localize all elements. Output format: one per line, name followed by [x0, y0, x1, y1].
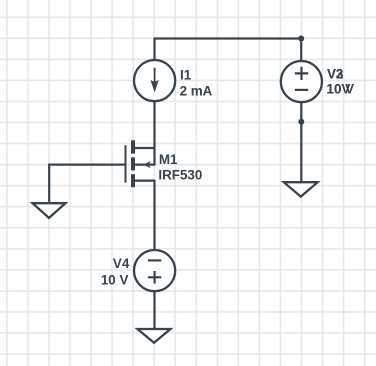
- wire: top net from I1 up and across to V2/V3: [155, 39, 302, 61]
- current source I1 circle: [134, 60, 175, 101]
- voltage source V2/V3 circle: [281, 61, 322, 102]
- svg-text:10V: 10V: [327, 82, 351, 97]
- wire: V2 top lead: [300, 39, 302, 62]
- M1 source stub: [135, 180, 155, 182]
- ground (right): [284, 182, 318, 196]
- V2 plus sign: [295, 67, 308, 80]
- M1 drain stub: [135, 147, 155, 149]
- svg-text:10 V: 10 V: [101, 272, 129, 287]
- wire: V2 bottom lead: [300, 102, 302, 122]
- I1 arrow shaft: [154, 68, 156, 83]
- svg-text:V3: V3: [327, 66, 343, 81]
- wire: MOSFET source down to V4: [153, 180, 155, 251]
- M1 channel bar middle: [131, 157, 135, 170]
- M1 body stub: [135, 164, 155, 166]
- M1 channel bar top: [131, 140, 135, 153]
- ground (left): [33, 203, 66, 218]
- wire: gate to left ground: [49, 165, 124, 202]
- M1 body arrow: [143, 161, 150, 168]
- V2 minus sign: [295, 89, 308, 91]
- V4 plus sign: [148, 271, 161, 284]
- wire: V4 to bottom ground: [153, 291, 155, 329]
- svg-text:2 mA: 2 mA: [180, 83, 213, 98]
- svg-text:IRF530: IRF530: [158, 167, 202, 182]
- svg-text:V4: V4: [113, 256, 130, 271]
- M1 channel bar bottom: [131, 174, 135, 187]
- junction node: top right corner: [298, 36, 304, 42]
- I1 arrow head: [150, 80, 158, 93]
- svg-text:M1: M1: [159, 152, 178, 167]
- V4 minus sign: [148, 259, 161, 261]
- wire: down to right ground: [300, 122, 302, 182]
- wire: I1 to MOSFET drain column: [153, 101, 155, 166]
- transistor M1 gate bar: [125, 145, 127, 182]
- junction node: below V2: [298, 119, 304, 125]
- svg-text:I1: I1: [180, 67, 192, 82]
- ground (bottom): [138, 329, 171, 343]
- voltage source V4 circle: [134, 250, 175, 291]
